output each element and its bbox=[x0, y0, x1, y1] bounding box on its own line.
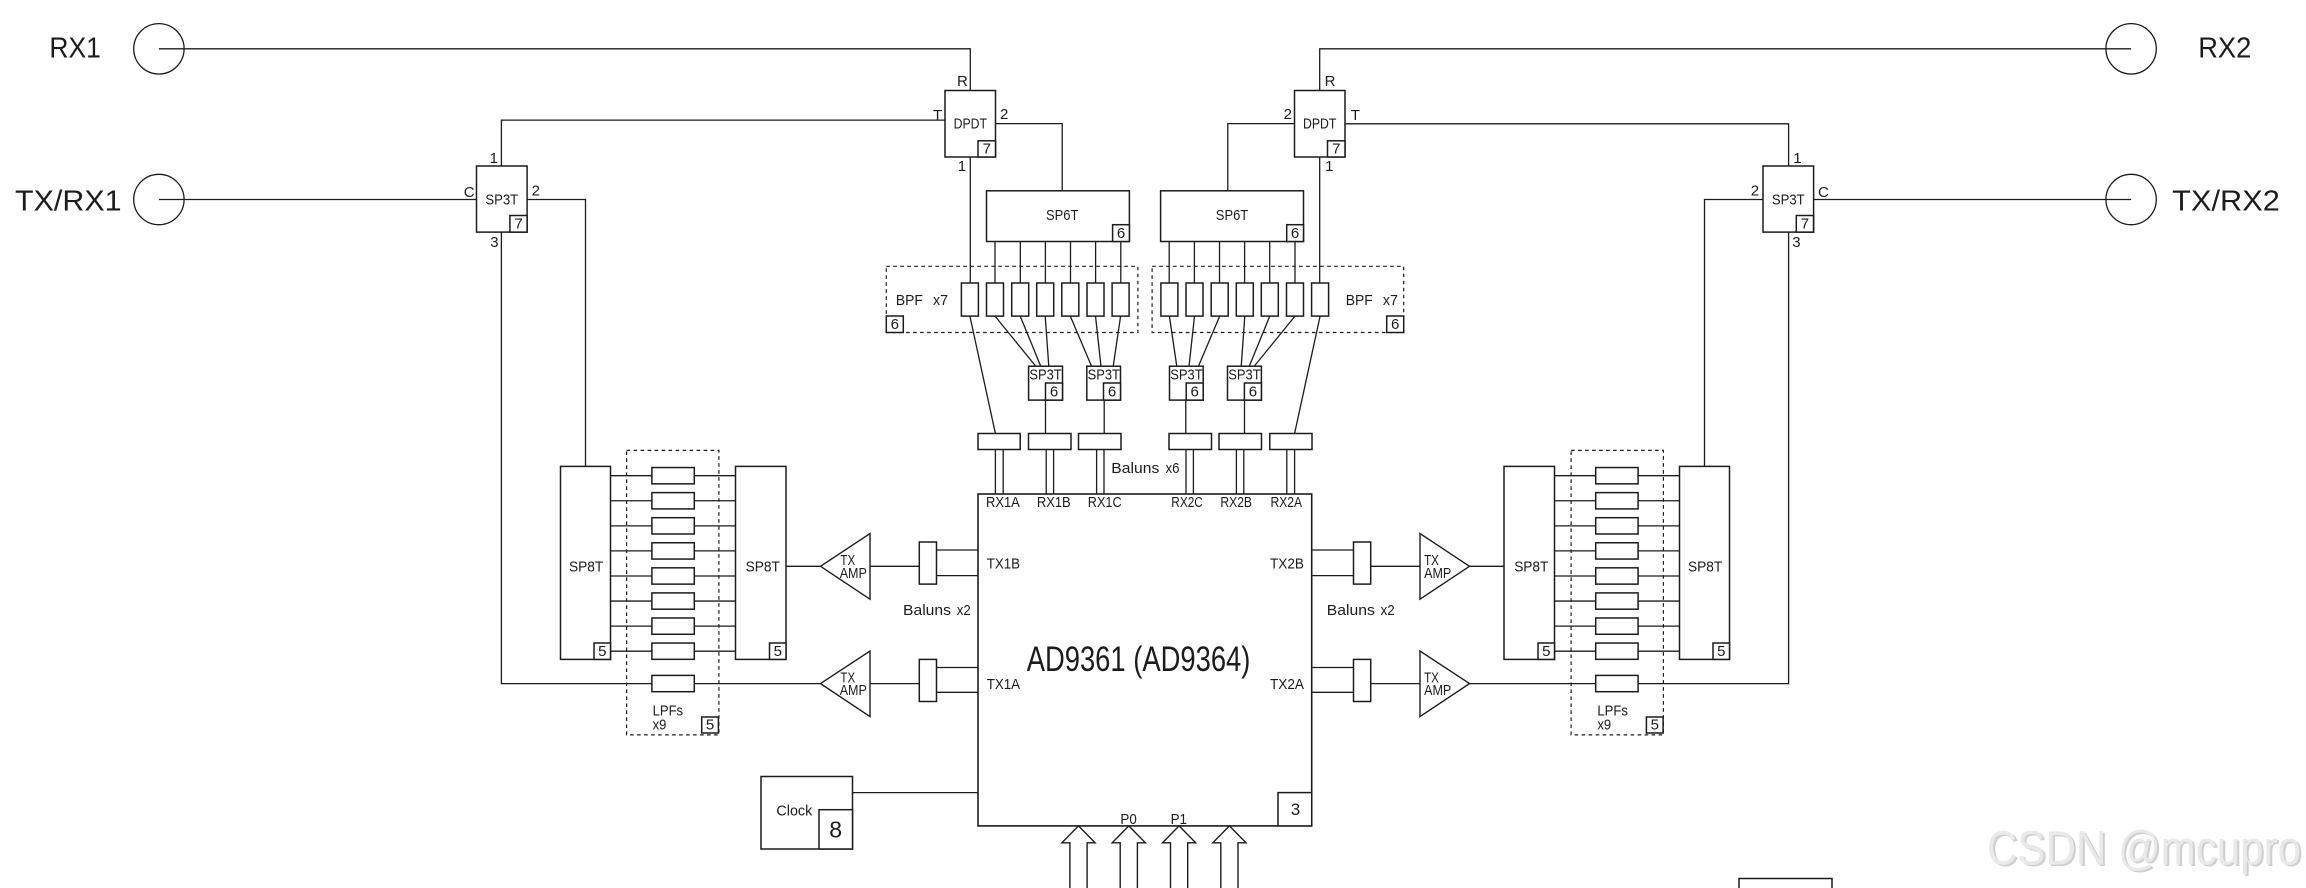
svg-text:7: 7 bbox=[514, 216, 522, 233]
svg-text:1: 1 bbox=[958, 158, 966, 175]
wire DPDT-right pin T to corner above SP3T-right bbox=[1345, 123, 1789, 125]
pin label T of DPDT (right) bbox=[1351, 107, 1360, 124]
wire LPF1 to SP8T-outer-right bbox=[1638, 475, 1679, 477]
band-pass filter BPF3 (right) bbox=[1261, 283, 1278, 316]
wire SP8T-inner-left to TX AMP 1B apex bbox=[786, 565, 821, 567]
wire SP3T RX-combiner-4 to balun 4 bbox=[1185, 400, 1187, 433]
label SP3T (RX combiner 2) bbox=[1088, 366, 1120, 383]
svg-text:6: 6 bbox=[1391, 316, 1399, 333]
svg-text:C: C bbox=[464, 184, 475, 201]
pin label RX2A bbox=[1271, 494, 1303, 511]
low-pass filter LPF1 (right) bbox=[1596, 468, 1638, 484]
id box 3 of AD9361 bbox=[1278, 793, 1312, 826]
svg-text:5: 5 bbox=[774, 643, 782, 660]
switch SP3T (left antenna) bbox=[477, 166, 528, 232]
id box 6 of BPF bank (right) bbox=[1387, 316, 1404, 333]
svg-text:RX2A: RX2A bbox=[1271, 494, 1303, 511]
amplifier TX AMP 1B bbox=[821, 534, 871, 600]
svg-text:AMP: AMP bbox=[1424, 682, 1451, 699]
wire LPF4 to SP8T-inner-left bbox=[694, 550, 735, 552]
label LPFs x9 (left) bbox=[653, 703, 684, 734]
pin label P1 bbox=[1171, 811, 1187, 828]
wire DPDT-left pin 2 horizontal bbox=[996, 123, 1063, 125]
svg-text:2: 2 bbox=[1000, 106, 1008, 123]
bus arrow 4 into AD9361 port bbox=[1213, 826, 1246, 888]
switch SP8T (inner left) bbox=[736, 466, 787, 659]
wire balun TX1B differential pair to AD9361 bbox=[937, 550, 979, 576]
wire SP8T-outer-left to LPF6 bbox=[611, 600, 652, 602]
low-pass filter LPF5 (left) bbox=[652, 568, 694, 584]
switch SP3T (RX combiner 1) bbox=[1029, 366, 1063, 400]
wire BPF-right output diagonal 4 bbox=[1241, 316, 1245, 366]
svg-text:2: 2 bbox=[532, 183, 540, 200]
wire SP6T-left pin 6 drop to BPF filter 7 bbox=[1120, 242, 1122, 284]
id box 7 of SP3T (left antenna) bbox=[510, 216, 527, 233]
label BPF x7 (right) bbox=[1346, 292, 1398, 309]
label SP3T (RX combiner 3) bbox=[1228, 366, 1260, 383]
svg-text:SP6T: SP6T bbox=[1046, 207, 1078, 224]
svg-text:5: 5 bbox=[598, 643, 606, 660]
label SP3T (right antenna) bbox=[1772, 191, 1805, 208]
wire corner down to SP3T-right pin 1 bbox=[1788, 123, 1790, 166]
id box 5 of SP8T (inner left) bbox=[770, 643, 787, 660]
wire SP8T-outer-left to LPF4 bbox=[611, 550, 652, 552]
id box 5 of SP8T (outer right) bbox=[1713, 643, 1730, 660]
pin label 1 of SP3T (right) bbox=[1793, 150, 1801, 167]
wire SP3T-right pin 3 drop to TX2A line bbox=[1788, 232, 1790, 684]
wire LPF9 to TX AMP 1A apex bbox=[694, 683, 820, 685]
low-pass filter LPF7 (left) bbox=[652, 618, 694, 634]
transceiver IC AD9361 (AD9364) body bbox=[978, 494, 1312, 826]
wire SP8T-inner-right to LPF6 bbox=[1555, 600, 1596, 602]
low-pass filter LPF7 (right) bbox=[1596, 618, 1638, 634]
pin label 1 of DPDT (right) bbox=[1325, 158, 1333, 175]
wire balun RX2C differential pair bbox=[1186, 450, 1193, 495]
label TX/RX2 bbox=[2172, 185, 2280, 217]
pin label 1 of DPDT (left) bbox=[958, 158, 966, 175]
switch SP8T (inner right) bbox=[1504, 466, 1555, 659]
wire SP8T-outer-left to LPF8 bbox=[611, 650, 652, 652]
svg-text:RX2B: RX2B bbox=[1220, 494, 1252, 511]
balun RX2A bbox=[1270, 434, 1312, 450]
svg-text:Baluns: Baluns bbox=[903, 602, 951, 619]
band-pass filter BPF2 (right) bbox=[1287, 283, 1304, 316]
svg-text:BPF: BPF bbox=[896, 292, 923, 309]
band-pass filter BPF6 (right) bbox=[1186, 283, 1203, 316]
svg-text:R: R bbox=[957, 73, 968, 90]
svg-text:x7: x7 bbox=[1383, 292, 1398, 309]
svg-text:3: 3 bbox=[490, 234, 498, 251]
wire BPF7-left output diagonal bbox=[1113, 316, 1120, 366]
label Baluns x6 bbox=[1111, 460, 1179, 477]
wire BPF6-left output diagonal bbox=[1096, 316, 1102, 366]
wire balun RX1C differential pair bbox=[1097, 450, 1104, 495]
balun RX1C bbox=[1079, 434, 1122, 450]
balun TX2B bbox=[1354, 542, 1371, 584]
wire SP6T-left pin 2 drop to BPF filter 3 bbox=[1019, 242, 1021, 284]
svg-text:C: C bbox=[1818, 184, 1829, 201]
svg-text:AMP: AMP bbox=[840, 682, 867, 699]
svg-text:AMP: AMP bbox=[840, 565, 867, 582]
svg-text:6: 6 bbox=[1191, 384, 1199, 401]
wire balun TX2A to TX AMP 2A bbox=[1371, 683, 1420, 685]
label SP3T (RX combiner 1) bbox=[1029, 366, 1061, 383]
svg-text:SP3T: SP3T bbox=[1228, 366, 1260, 383]
wire SP8T-outer-left to LPF7 bbox=[611, 625, 652, 627]
svg-text:RX1A: RX1A bbox=[986, 494, 1020, 511]
port TX/RX1 connector circle bbox=[134, 174, 184, 224]
amplifier TX AMP 2A bbox=[1420, 651, 1470, 717]
wire SP6T-left pin 3 drop to BPF filter 4 bbox=[1044, 242, 1046, 284]
svg-text:DPDT: DPDT bbox=[1303, 116, 1336, 133]
pin label TX2A bbox=[1270, 676, 1304, 693]
id box 5 of SP8T (outer left) bbox=[594, 643, 611, 660]
wire LPF2 to SP8T-outer-right bbox=[1638, 500, 1679, 502]
band-pass filter BPF1 (right) bbox=[1312, 283, 1329, 316]
label DPDT (left) bbox=[954, 116, 987, 133]
svg-text:TX1A: TX1A bbox=[987, 676, 1020, 693]
id box 7 of SP3T (right antenna) bbox=[1796, 216, 1813, 233]
switch DPDT (right) bbox=[1295, 91, 1346, 158]
wire SP6T-right pin 5 drop to BPF filter bbox=[1193, 242, 1195, 284]
pin label 2 of DPDT (right) bbox=[1284, 106, 1292, 123]
wire balun RX2A differential pair bbox=[1287, 450, 1295, 495]
svg-text:8: 8 bbox=[829, 816, 842, 842]
svg-text:T: T bbox=[933, 107, 942, 124]
svg-text:CSDN @mcupro: CSDN @mcupro bbox=[1987, 823, 2301, 876]
svg-text:6: 6 bbox=[1291, 225, 1299, 242]
band-pass filter BPF5 (right) bbox=[1211, 283, 1228, 316]
svg-text:5: 5 bbox=[1717, 643, 1725, 660]
wire balun RX1B differential pair bbox=[1046, 450, 1053, 495]
balun TX1A bbox=[919, 659, 936, 701]
band-pass filter BPF7 (right) bbox=[1161, 283, 1178, 316]
svg-text:7: 7 bbox=[1801, 216, 1809, 233]
BPF bank enclosure (right, dashed) bbox=[1152, 266, 1404, 332]
wire LPF7 to SP8T-outer-right bbox=[1638, 625, 1679, 627]
wire LPF1 to SP8T-inner-left bbox=[694, 475, 735, 477]
wire SP8T-inner-right to LPF4 bbox=[1555, 550, 1596, 552]
wire RX1 to DPDT-left pin R (horizontal) bbox=[159, 48, 970, 50]
label SP8T (outer left) bbox=[569, 559, 603, 576]
wire BPF-right output diagonal 3 bbox=[1249, 316, 1270, 366]
label SP6T (left) bbox=[1046, 207, 1078, 224]
balun RX1B bbox=[1029, 434, 1072, 450]
wire balun TX2B to TX AMP 2B bbox=[1371, 565, 1420, 567]
pin label C of SP3T (right) bbox=[1818, 184, 1829, 201]
wire TX AMP 2A apex to LPF9-right bbox=[1470, 683, 1596, 685]
svg-text:Baluns: Baluns bbox=[1111, 460, 1159, 477]
wire SP3T-left pin 3 drop to TX1A line bbox=[500, 232, 502, 684]
bus arrow 3 into AD9361 port bbox=[1163, 826, 1196, 888]
svg-text:3: 3 bbox=[1291, 800, 1300, 819]
svg-text:RX2: RX2 bbox=[2198, 32, 2251, 64]
wire DPDT-left pin 1 drop to BPF filter 1 bbox=[969, 157, 971, 283]
wire BPF-right output diagonal 6 bbox=[1189, 316, 1195, 366]
svg-text:2: 2 bbox=[1751, 183, 1759, 200]
pin label 2 of DPDT (left) bbox=[1000, 106, 1008, 123]
bus arrow 1 into AD9361 port bbox=[1062, 826, 1095, 888]
id box 5 of SP8T (inner right) bbox=[1538, 643, 1555, 660]
wire SP6T-left pin 1 drop to BPF filter 2 bbox=[994, 242, 996, 284]
wire RX1 vertical drop to DPDT-left pin R bbox=[969, 48, 971, 90]
wire RX2 to DPDT-right pin R (horizontal) bbox=[1320, 48, 2131, 50]
wire RX2 vertical drop to DPDT-right pin R bbox=[1319, 48, 1321, 90]
svg-text:x9: x9 bbox=[1597, 716, 1611, 733]
band-pass filter BPF2 (left) bbox=[987, 283, 1004, 316]
low-pass filter LPF8 (right) bbox=[1596, 643, 1638, 659]
wire SP6T-right pin 6 drop to BPF filter bbox=[1168, 242, 1170, 284]
wire SP8T-inner-right to LPF1 bbox=[1555, 475, 1596, 477]
wire BPF5-left output diagonal bbox=[1070, 316, 1091, 366]
wire BPF3-left output diagonal bbox=[1020, 316, 1041, 366]
band-pass filter BPF4 (left) bbox=[1037, 283, 1054, 316]
bus arrow 2 into AD9361 port bbox=[1112, 826, 1145, 888]
wire SP6T-right pin 2 drop to BPF filter bbox=[1269, 242, 1271, 284]
svg-text:5: 5 bbox=[1542, 643, 1550, 660]
wire SP3T-right pin 2 drop to SP8T outer-right top bbox=[1704, 199, 1706, 467]
wire LPF3 to SP8T-outer-right bbox=[1638, 525, 1679, 527]
switch SP6T (left) bbox=[987, 191, 1130, 242]
wire DPDT-right pin 2 drop to SP6T-right top bbox=[1227, 123, 1229, 191]
wire balun TX1A differential pair to AD9361 bbox=[937, 668, 979, 693]
pin label RX1A bbox=[986, 494, 1020, 511]
pin label 3 of SP3T (right) bbox=[1792, 234, 1800, 251]
wire SP3T RX-combiner-2 to balun 3 bbox=[1103, 400, 1105, 433]
pin label 2 of SP3T (left) bbox=[532, 183, 540, 200]
pin label 2 of SP3T (right) bbox=[1751, 183, 1759, 200]
id box 6 of SP6T (right) bbox=[1287, 225, 1304, 242]
svg-text:Baluns: Baluns bbox=[1327, 602, 1375, 619]
label SP6T (right) bbox=[1216, 207, 1248, 224]
low-pass filter LPF4 (right) bbox=[1596, 543, 1638, 559]
partial box (bottom, cropped) bbox=[1739, 879, 1832, 888]
pin label RX2B bbox=[1220, 494, 1252, 511]
BPF bank enclosure (left, dashed) bbox=[886, 266, 1138, 332]
wire LPF8 to SP8T-inner-left bbox=[694, 650, 735, 652]
svg-text:x2: x2 bbox=[957, 602, 971, 619]
low-pass filter LPF6 (left) bbox=[652, 593, 694, 609]
wire TX AMP 1B to balun TX1B bbox=[870, 565, 919, 567]
svg-text:x6: x6 bbox=[1166, 460, 1180, 477]
svg-text:1: 1 bbox=[1793, 150, 1801, 167]
wire clock to AD9361 bbox=[853, 792, 979, 794]
svg-text:SP8T: SP8T bbox=[569, 559, 603, 576]
watermark CSDN @mcupro bbox=[1987, 823, 2303, 878]
wire BPF-right output diagonal 2 bbox=[1254, 316, 1295, 366]
wire TX/RX2 to SP3T-right pin C bbox=[1814, 199, 2132, 201]
amplifier TX AMP 1A bbox=[821, 651, 871, 717]
wire SP6T-right pin 1 drop to BPF filter bbox=[1294, 242, 1296, 284]
wire SP8T-inner-right to LPF2 bbox=[1555, 500, 1596, 502]
balun TX2A bbox=[1354, 659, 1371, 701]
switch SP8T (outer right) bbox=[1680, 466, 1730, 659]
svg-text:7: 7 bbox=[1332, 140, 1340, 157]
wire LPF5 to SP8T-outer-right bbox=[1638, 575, 1679, 577]
svg-text:x9: x9 bbox=[653, 716, 667, 733]
label Baluns x2 (left) bbox=[903, 602, 971, 619]
id box 7 of DPDT (right) bbox=[1328, 140, 1346, 157]
svg-text:TX2B: TX2B bbox=[1270, 555, 1304, 572]
low-pass filter LPF2 (left) bbox=[652, 493, 694, 509]
band-pass filter BPF4 (right) bbox=[1236, 283, 1253, 316]
low-pass filter LPF3 (left) bbox=[652, 518, 694, 534]
wire LPF4 to SP8T-outer-right bbox=[1638, 550, 1679, 552]
band-pass filter BPF7 (left) bbox=[1112, 283, 1129, 316]
svg-text:R: R bbox=[1325, 73, 1336, 90]
label Baluns x2 (right) bbox=[1327, 602, 1395, 619]
label BPF x7 (left) bbox=[896, 292, 948, 309]
LPF bank enclosure (left, dashed) bbox=[627, 450, 719, 735]
label TX/RX1 bbox=[15, 186, 122, 218]
pin label RX2C bbox=[1171, 494, 1203, 511]
label SP8T (inner left) bbox=[746, 559, 780, 576]
svg-text:TX1B: TX1B bbox=[987, 555, 1020, 572]
band-pass filter BPF3 (left) bbox=[1012, 283, 1029, 316]
wire SP3T RX-combiner-1 to balun 2 bbox=[1045, 400, 1047, 433]
wire LPF8 to SP8T-outer-right bbox=[1638, 650, 1679, 652]
wire BPF-right output diagonal 1 bbox=[1295, 316, 1321, 433]
svg-text:5: 5 bbox=[1651, 716, 1659, 733]
svg-text:BPF: BPF bbox=[1346, 292, 1373, 309]
wire SP6T-left pin 5 drop to BPF filter 6 bbox=[1095, 242, 1097, 284]
pin label TX1A bbox=[987, 676, 1020, 693]
wire LPF9-right to SP3T-right pin 3 bbox=[1638, 683, 1789, 685]
label DPDT (right) bbox=[1303, 116, 1336, 133]
svg-text:T: T bbox=[1351, 107, 1360, 124]
switch DPDT (left) bbox=[945, 91, 996, 158]
wire SP6T-right pin 3 drop to BPF filter bbox=[1244, 242, 1246, 284]
wire BPF2-left output diagonal bbox=[995, 316, 1036, 366]
switch SP8T (outer left) bbox=[561, 466, 611, 659]
low-pass filter LPF9 (left) bbox=[652, 675, 694, 691]
wire DPDT-right pin 2 horizontal bbox=[1228, 123, 1295, 125]
svg-text:RX1: RX1 bbox=[49, 32, 101, 64]
svg-text:SP8T: SP8T bbox=[1514, 559, 1548, 576]
svg-text:1: 1 bbox=[1325, 158, 1333, 175]
pin label C of SP3T (left) bbox=[464, 184, 475, 201]
wire SP8T-outer-left to LPF5 bbox=[611, 575, 652, 577]
wire balun TX2A differential pair to AD9361 bbox=[1312, 668, 1354, 693]
wire SP6T-right pin 4 drop to BPF filter bbox=[1219, 242, 1221, 284]
svg-text:Clock: Clock bbox=[776, 803, 812, 820]
id box 6 of SP3T (RX combiner 1) bbox=[1046, 383, 1063, 401]
pin label R of DPDT (right) bbox=[1325, 73, 1336, 90]
wire LPF6 to SP8T-inner-left bbox=[694, 600, 735, 602]
svg-text:SP3T: SP3T bbox=[1170, 366, 1202, 383]
svg-text:SP8T: SP8T bbox=[1688, 559, 1722, 576]
wire balun RX2B differential pair bbox=[1236, 450, 1243, 495]
low-pass filter LPF1 (left) bbox=[652, 468, 694, 484]
svg-text:2: 2 bbox=[1284, 106, 1292, 123]
label RX1 bbox=[49, 32, 101, 64]
balun RX2C bbox=[1169, 434, 1212, 450]
wire DPDT-right pin 1 drop to BPF filter (rightmost) bbox=[1319, 157, 1321, 283]
amplifier TX AMP 2B bbox=[1420, 534, 1470, 600]
pin label P0 bbox=[1120, 811, 1136, 828]
wire SP8T-outer-left to LPF2 bbox=[611, 500, 652, 502]
wire BPF4-left output diagonal bbox=[1045, 316, 1049, 366]
wire SP3T-left pin 2 drop to SP8T outer-left top bbox=[585, 199, 587, 467]
band-pass filter BPF6 (left) bbox=[1087, 283, 1104, 316]
wire SP8T-inner-right to LPF7 bbox=[1555, 625, 1596, 627]
clock oscillator box bbox=[761, 777, 853, 850]
svg-text:DPDT: DPDT bbox=[954, 116, 987, 133]
svg-text:SP3T: SP3T bbox=[1772, 191, 1805, 208]
pin label TX2B bbox=[1270, 555, 1304, 572]
id box 6 of SP3T (RX combiner 3) bbox=[1244, 383, 1261, 401]
low-pass filter LPF6 (right) bbox=[1596, 593, 1638, 609]
svg-text:SP3T: SP3T bbox=[485, 191, 518, 208]
svg-text:RX1B: RX1B bbox=[1037, 494, 1071, 511]
wire SP8T-outer-left to LPF1 bbox=[611, 475, 652, 477]
label AD9361 (AD9364) bbox=[1027, 640, 1251, 679]
band-pass filter BPF1 (left) bbox=[961, 283, 978, 316]
svg-text:6: 6 bbox=[891, 316, 899, 333]
pin label TX1B bbox=[987, 555, 1020, 572]
band-pass filter BPF5 (left) bbox=[1062, 283, 1079, 316]
wire TX AMP 1A to balun TX1A bbox=[870, 683, 919, 685]
id box 7 of DPDT (left) bbox=[978, 140, 996, 157]
switch SP3T (RX combiner 2) bbox=[1087, 366, 1121, 400]
pin label R of DPDT (left) bbox=[957, 73, 968, 90]
svg-text:RX1C: RX1C bbox=[1088, 494, 1122, 511]
wire SP8T-outer-left to LPF3 bbox=[611, 525, 652, 527]
label SP8T (outer right) bbox=[1688, 559, 1722, 576]
id box 8 of clock bbox=[819, 810, 853, 849]
wire BPF-right output diagonal 5 bbox=[1198, 316, 1219, 366]
svg-text:AD9361 (AD9364): AD9361 (AD9364) bbox=[1027, 640, 1251, 679]
balun RX1A bbox=[978, 434, 1020, 450]
wire SP8T-inner-right to LPF8 bbox=[1555, 650, 1596, 652]
label Clock bbox=[776, 803, 812, 820]
switch SP3T (right antenna) bbox=[1763, 166, 1814, 232]
svg-text:RX2C: RX2C bbox=[1171, 494, 1203, 511]
svg-text:TX2A: TX2A bbox=[1270, 676, 1304, 693]
pin label 3 of SP3T (left) bbox=[490, 234, 498, 251]
wire LPF2 to SP8T-inner-left bbox=[694, 500, 735, 502]
low-pass filter LPF4 (left) bbox=[652, 543, 694, 559]
wire SP8T-inner-right to LPF3 bbox=[1555, 525, 1596, 527]
wire LPF3 to SP8T-inner-left bbox=[694, 525, 735, 527]
switch SP6T (right) bbox=[1161, 191, 1304, 242]
svg-text:x7: x7 bbox=[933, 292, 948, 309]
wire SP3T-left pin 3 line to LPF9 bbox=[501, 683, 652, 685]
svg-text:SP3T: SP3T bbox=[1088, 366, 1120, 383]
svg-text:6: 6 bbox=[1117, 225, 1125, 242]
wire corner down to SP3T-left pin 1 bbox=[500, 120, 502, 167]
id box 6 of BPF bank (left) bbox=[886, 316, 903, 333]
pin label RX1B bbox=[1037, 494, 1071, 511]
id box 5 of LPF bank (right) bbox=[1646, 716, 1663, 733]
balun TX1B bbox=[919, 542, 936, 584]
wire LPF6 to SP8T-outer-right bbox=[1638, 600, 1679, 602]
switch SP3T (RX combiner 3) bbox=[1228, 366, 1262, 400]
LPF bank enclosure (right, dashed) bbox=[1571, 450, 1663, 735]
wire balun TX2B differential pair to AD9361 bbox=[1312, 550, 1354, 576]
pin label RX1C bbox=[1088, 494, 1122, 511]
switch SP3T (RX combiner 4) bbox=[1170, 366, 1204, 400]
svg-text:SP8T: SP8T bbox=[746, 559, 780, 576]
svg-text:AMP: AMP bbox=[1424, 565, 1451, 582]
wire LPF7 to SP8T-inner-left bbox=[694, 625, 735, 627]
svg-text:3: 3 bbox=[1792, 234, 1800, 251]
low-pass filter LPF5 (right) bbox=[1596, 568, 1638, 584]
label SP8T (inner right) bbox=[1514, 559, 1548, 576]
svg-text:TX/RX1: TX/RX1 bbox=[15, 186, 122, 218]
wire SP3T RX-combiner-3 to balun 5 bbox=[1244, 400, 1246, 433]
wire TX AMP 2B apex to SP8T-inner-right bbox=[1470, 565, 1505, 567]
